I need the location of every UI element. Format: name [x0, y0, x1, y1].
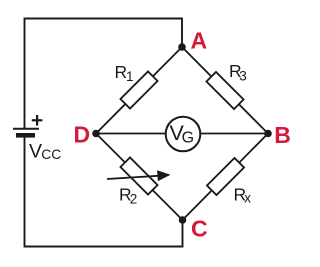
svg-text:1: 1 — [126, 69, 134, 84]
resistor Rx (body) — [207, 158, 244, 195]
resistor R3 (body) — [206, 72, 243, 109]
resistor R1 (body) — [120, 71, 157, 108]
label R1 — [115, 62, 134, 84]
svg-text:3: 3 — [239, 69, 247, 84]
label R2 — [119, 185, 137, 207]
svg-text:D: D — [74, 121, 91, 147]
battery VCC negative plate — [16, 133, 35, 138]
battery VCC positive plate — [13, 128, 39, 130]
svg-text:2: 2 — [130, 192, 138, 207]
resistor R2 variable (body) — [120, 157, 157, 194]
node A (junction dot) — [178, 43, 186, 51]
svg-text:CC: CC — [41, 147, 61, 162]
label Rx — [234, 185, 252, 206]
svg-text:V: V — [29, 140, 42, 162]
wire: battery positive to node A (left riser, top run, drop to A) — [25, 19, 183, 129]
svg-text:C: C — [191, 215, 208, 241]
svg-text:A: A — [191, 27, 208, 53]
label R3 — [229, 61, 247, 83]
resistor R2 wiper arrow — [107, 170, 171, 181]
node C (junction dot) — [179, 216, 187, 224]
galvanometer VG (circle) — [166, 117, 201, 152]
svg-text:B: B — [274, 122, 291, 148]
label VG — [170, 121, 195, 146]
node D (junction dot) — [92, 130, 100, 138]
label VCC — [29, 140, 61, 162]
node B (junction dot) — [264, 130, 272, 138]
wire: galvanometer bridge D to B — [96, 133, 268, 135]
wire: arm C to B — [183, 134, 269, 221]
wire: arm D to A — [96, 47, 182, 134]
battery plus sign — [32, 115, 43, 126]
svg-text:G: G — [182, 129, 194, 146]
wire: arm A to B — [182, 47, 268, 134]
wire: battery negative to node C (left drop, bottom run, rise to C) — [25, 138, 183, 247]
svg-text:x: x — [244, 191, 251, 206]
wire: arm D to C — [96, 134, 183, 221]
